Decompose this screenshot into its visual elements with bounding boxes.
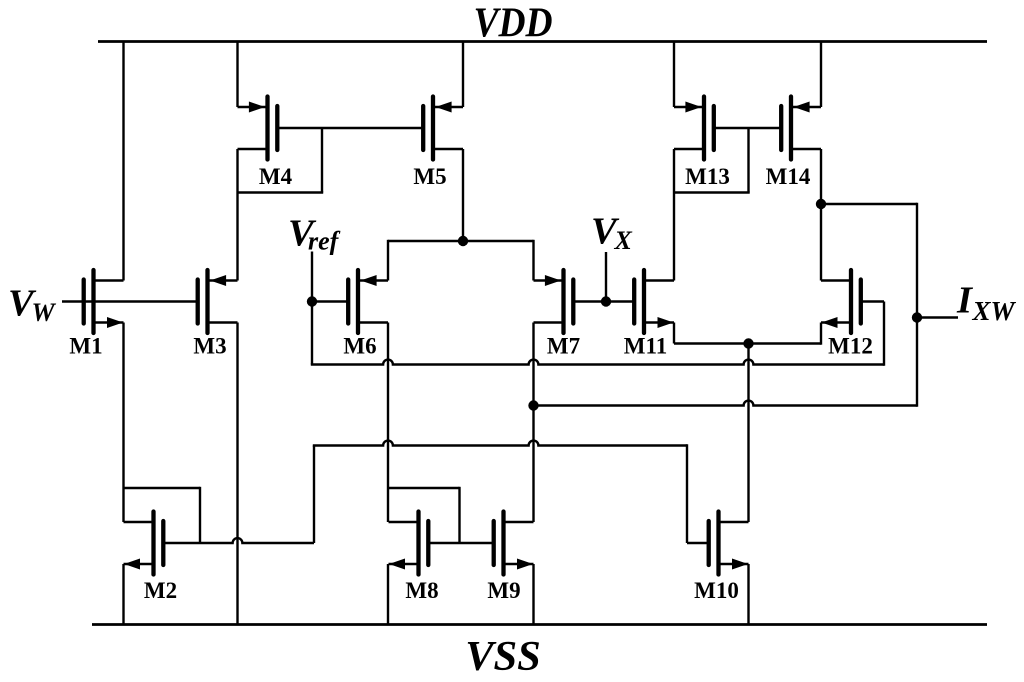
junction dot Vx node: [601, 296, 611, 306]
transistor M7 source arrow (points into channel): [545, 275, 561, 286]
transistor M8 drain/source bottom lead: [389, 563, 419, 565]
transistor M9 drain/source top lead: [504, 521, 534, 523]
svg-text:M9: M9: [487, 578, 520, 603]
svg-text:M7: M7: [547, 334, 580, 359]
wire M4 drain to M3 source, M3 drain to VSS: [236, 149, 238, 625]
wire Ixw output stub: [917, 316, 958, 318]
transistor M13 channel bar: [702, 97, 706, 160]
transistor M1 drain/source bottom lead: [94, 321, 124, 323]
wire M8 gate to M9 gate: [428, 542, 493, 544]
transistor M9 gate bar: [492, 521, 496, 565]
transistor M7 drain/source top lead: [534, 279, 564, 281]
wire M4 diode connection (gate riser to drain): [238, 128, 324, 193]
svg-text:M11: M11: [624, 334, 667, 359]
wire M6 drain to M8 drain (crosses two lines): [387, 323, 389, 523]
wire M7 gate to M11 gate: [573, 300, 634, 302]
transistor M12 drain/source bottom lead: [821, 321, 851, 323]
wire M7 drain to M9 drain: [532, 323, 534, 523]
transistor M12 source arrow (points outward): [822, 317, 838, 328]
svg-text:XW: XW: [972, 296, 1017, 326]
label M5: [413, 164, 446, 189]
transistor M10 channel bar: [716, 512, 720, 575]
label M6: [343, 334, 376, 359]
port label VW: [8, 283, 57, 328]
junction dot Vref node: [307, 296, 317, 306]
wire M10 drain riser (crosses two lines): [747, 344, 749, 523]
wire Vref to M6 gate: [312, 300, 348, 302]
label M10: [694, 578, 739, 603]
svg-text:M13: M13: [685, 164, 730, 189]
transistor M5 drain/source top lead: [433, 106, 463, 108]
wire M1 source to M2 drain: [122, 323, 124, 523]
transistor M8 channel bar: [416, 512, 420, 575]
svg-text:M4: M4: [259, 164, 293, 189]
svg-text:M14: M14: [766, 164, 811, 189]
transistor M1 gate bar: [82, 280, 86, 324]
transistor M4 drain/source bottom lead: [238, 148, 268, 150]
svg-text:W: W: [32, 298, 57, 327]
svg-text:M12: M12: [828, 334, 873, 359]
transistor M11 drain/source bottom lead: [644, 321, 674, 323]
transistor M8 source arrow (points outward): [389, 559, 405, 570]
transistor M2 drain/source bottom lead: [124, 563, 154, 565]
transistor M3 channel bar: [205, 270, 209, 333]
wire M9 source to VSS: [532, 564, 534, 625]
label M7: [547, 334, 580, 359]
wire M2 gate line to riser (hops over M3 drain wire): [164, 446, 314, 544]
transistor M7 channel bar: [561, 270, 565, 333]
svg-text:VSS: VSS: [465, 633, 541, 677]
wire M13 diode connection (gate riser to drain): [674, 128, 750, 193]
transistor M9 source arrow (points outward): [517, 559, 533, 570]
svg-text:M3: M3: [193, 334, 226, 359]
transistor M12 channel bar: [849, 270, 853, 333]
junction dot M5 drain on tail line: [458, 236, 468, 246]
wire VDD to M14 source: [820, 42, 822, 108]
transistor M2 drain/source top lead: [124, 521, 154, 523]
transistor M6 drain/source top lead: [358, 279, 388, 281]
wire VDD to M1 drain: [122, 42, 124, 281]
label M2: [144, 578, 177, 603]
svg-text:M8: M8: [405, 578, 438, 603]
svg-text:M10: M10: [694, 578, 739, 603]
transistor M6 gate bar: [346, 280, 350, 324]
transistor M13 drain/source bottom lead: [674, 148, 704, 150]
transistor M11 gate bar: [632, 280, 636, 324]
transistor M8 drain/source top lead: [389, 521, 419, 523]
label M3: [193, 334, 226, 359]
wire Vref line to M12 gate (hops over M6, M7, M10 verticals): [311, 360, 884, 365]
transistor M4 channel bar: [265, 97, 269, 160]
junction dot M10 drain node: [743, 338, 753, 348]
junction dot M14/M12 drain output node: [816, 199, 826, 209]
svg-text:ref: ref: [308, 227, 341, 256]
transistor M11 channel bar: [642, 270, 646, 333]
wire M2 diode connection (drain to gate): [124, 487, 201, 543]
svg-text:VDD: VDD: [474, 0, 553, 47]
svg-text:M2: M2: [144, 578, 177, 603]
label M4: [259, 164, 293, 189]
transistor M14 source arrow (points into channel): [794, 102, 810, 113]
port label Ixw: [956, 280, 1017, 327]
transistor M10 gate bar: [707, 521, 711, 565]
wire output top line to Ixw vertical: [821, 203, 917, 407]
transistor M5 source arrow (points into channel): [436, 102, 452, 113]
transistor M3 drain/source top lead: [208, 279, 238, 281]
wire output node to M12 drain: [820, 204, 822, 281]
svg-text:M1: M1: [69, 334, 102, 359]
transistor M2 channel bar: [151, 512, 155, 575]
label M9: [487, 578, 520, 603]
transistor M9 channel bar: [501, 512, 505, 575]
junction dot M7 drain on output line: [528, 400, 538, 410]
wire input VW to M1 gate and M3 gate: [62, 300, 198, 302]
label M8: [405, 578, 438, 603]
wire M8 diode connection (drain to gate): [388, 487, 460, 543]
transistor M1 channel bar: [91, 270, 95, 333]
transistor M14 drain/source bottom lead: [791, 148, 821, 150]
wire M11 source / M12 source line: [674, 323, 821, 345]
transistor M4 gate bar: [275, 106, 279, 150]
transistor M6 drain/source bottom lead: [358, 321, 388, 323]
svg-text:M6: M6: [343, 334, 376, 359]
transistor M13 source arrow (points into channel): [685, 102, 701, 113]
transistor M14 gate bar: [779, 106, 783, 150]
label M1: [69, 334, 102, 359]
label M14: [766, 164, 811, 189]
label M11: [624, 334, 667, 359]
svg-text:I: I: [956, 280, 974, 322]
transistor M2 gate bar: [161, 521, 165, 565]
transistor M1 source arrow (points outward): [107, 317, 123, 328]
transistor M3 source arrow (points into channel): [210, 275, 226, 286]
transistor M5 channel bar: [431, 97, 435, 160]
label M12: [828, 334, 873, 359]
svg-text:M5: M5: [413, 164, 446, 189]
transistor M6 channel bar: [356, 270, 360, 333]
wire M12 gate riser: [861, 302, 884, 366]
transistor M3 gate bar: [196, 280, 200, 324]
transistor M5 gate bar: [421, 106, 425, 150]
VDD power rail: [98, 40, 987, 43]
transistor M10 drain/source bottom lead: [719, 563, 749, 565]
wire VDD to M5 source: [462, 42, 464, 108]
wire M4 gate to M5 gate: [277, 127, 423, 129]
transistor M9 drain/source bottom lead: [504, 563, 534, 565]
transistor M13 drain/source top lead: [674, 106, 704, 108]
wire VDD to M4 source: [236, 42, 238, 108]
net label VSS: [465, 633, 541, 680]
transistor M11 source arrow (points outward): [658, 317, 674, 328]
transistor M14 channel bar: [789, 97, 793, 160]
transistor M1 drain/source top lead: [94, 279, 124, 281]
junction dot Ixw node: [912, 312, 922, 322]
port label Vref: [288, 213, 341, 256]
net label VDD: [474, 0, 553, 47]
transistor M10 source arrow (points outward): [732, 559, 748, 570]
transistor M10 drain/source top lead: [719, 521, 749, 523]
wire input Vref leg: [311, 252, 313, 365]
transistor M12 gate bar: [859, 280, 863, 324]
wire M5 drain to tail node: [462, 149, 464, 241]
transistor M6 source arrow (points into channel): [361, 275, 377, 286]
wire M14 drain to output node: [820, 149, 822, 204]
transistor M14 drain/source top lead: [791, 106, 821, 108]
label M13: [685, 164, 730, 189]
transistor M7 drain/source bottom lead: [534, 321, 564, 323]
transistor M2 source arrow (points outward): [124, 559, 140, 570]
transistor M5 drain/source bottom lead: [433, 148, 463, 150]
transistor M13 gate bar: [712, 106, 716, 150]
transistor M7 gate bar: [571, 280, 575, 324]
transistor M11 drain/source top lead: [644, 279, 674, 281]
transistor M12 drain/source top lead: [821, 279, 851, 281]
wire M2 source to VSS: [122, 564, 124, 625]
transistor M3 drain/source bottom lead: [208, 321, 238, 323]
transistor M4 source arrow (points into channel): [249, 102, 265, 113]
port label Vx: [591, 211, 633, 256]
transistor M8 gate bar: [426, 521, 430, 565]
wire M13 drain to M11 drain: [673, 149, 675, 281]
VSS power rail: [92, 623, 987, 626]
wire M8 source to VSS: [387, 564, 389, 625]
wire VDD to M13 source: [673, 42, 675, 108]
wire mirror gate line to M10 gate (hops over M6, M7 verticals): [313, 441, 709, 543]
svg-text:X: X: [614, 226, 633, 255]
transistor M4 drain/source top lead: [238, 106, 268, 108]
wire M13 gate to M14 gate: [714, 127, 781, 129]
wire M10 source to VSS: [747, 564, 749, 625]
wire input Vx leg: [605, 252, 607, 302]
wire M7/M9 drain line to output vertical (hops over M10 drain): [534, 401, 918, 406]
wire tail line M6 source / M7 source: [388, 240, 534, 281]
